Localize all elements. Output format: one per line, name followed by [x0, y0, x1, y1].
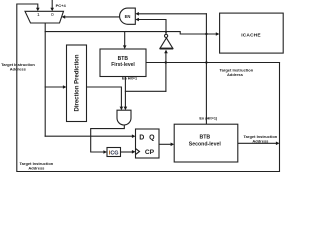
svg-text:PC+4: PC+4	[56, 3, 67, 8]
svg-text:Address: Address	[28, 166, 45, 171]
svg-text:ICACHE: ICACHE	[241, 32, 261, 38]
svg-text:0: 0	[51, 12, 54, 18]
svg-text:CP: CP	[145, 149, 155, 156]
svg-text:1: 1	[37, 12, 40, 18]
svg-text:En Hit=1: En Hit=1	[122, 76, 137, 80]
svg-text:D: D	[139, 135, 144, 142]
svg-text:Address: Address	[252, 138, 269, 143]
svg-text:Direction Prediction: Direction Prediction	[75, 54, 81, 111]
svg-text:ICG: ICG	[109, 150, 119, 156]
svg-text:BTB: BTB	[199, 135, 210, 141]
svg-text:Address: Address	[227, 72, 244, 77]
svg-text:EN: EN	[125, 14, 131, 19]
svg-text:En (Hit=1): En (Hit=1)	[199, 116, 218, 120]
svg-text:BTB: BTB	[118, 56, 129, 62]
svg-text:Second-level: Second-level	[189, 141, 222, 147]
svg-text:First-level: First-level	[111, 62, 135, 68]
svg-text:Q: Q	[149, 135, 155, 142]
svg-text:Address: Address	[10, 67, 27, 72]
